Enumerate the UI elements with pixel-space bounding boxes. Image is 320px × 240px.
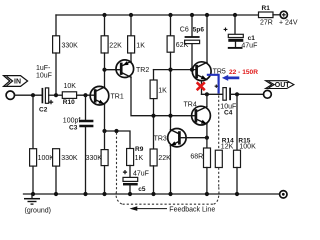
- node ground junction x=85.5: [83, 192, 87, 196]
- ground symbol bottom-left: [24, 194, 40, 204]
- node ground junction x=206.9: [205, 192, 209, 196]
- wire output node: [202, 93, 223, 95]
- resistor 62K: [167, 15, 188, 131]
- terminal +24V supply: [279, 11, 298, 26]
- svg-text:47uF: 47uF: [241, 42, 257, 49]
- resistor R9 1K: [127, 146, 144, 177]
- svg-text:C4: C4: [224, 110, 233, 117]
- node TR3-base/TR4-emitter/68R junction: [205, 136, 209, 140]
- svg-text:1K: 1K: [158, 88, 167, 95]
- wire TR2 base: [105, 69, 122, 71]
- svg-text:12K: 12K: [221, 144, 234, 151]
- svg-text:TR4: TR4: [184, 101, 197, 108]
- wire TR4 collector up: [206, 94, 208, 106]
- annotation blue arrow: [222, 75, 239, 81]
- node rail-1K junction: [129, 13, 133, 17]
- OUT banner: [266, 81, 294, 89]
- wire C4 to OUT: [230, 93, 263, 95]
- svg-text:10K: 10K: [64, 83, 77, 90]
- node TR4-collector/output junction: [205, 92, 209, 96]
- svg-text:c5: c5: [138, 186, 146, 193]
- svg-text:C2: C2: [39, 106, 48, 113]
- resistor 330K lower-middle: [86, 131, 109, 194]
- node ground junction x=237: [235, 192, 239, 196]
- node rail-C6 junction: [190, 13, 194, 17]
- svg-text:22 - 150R: 22 - 150R: [229, 69, 258, 76]
- svg-text:100pf: 100pf: [63, 118, 81, 125]
- capacitor c1 47uF: [224, 15, 258, 49]
- svg-text:100K: 100K: [38, 155, 55, 162]
- wire TR4 emitter down: [206, 124, 208, 138]
- svg-text:1K: 1K: [135, 155, 144, 162]
- node ground junction x=56: [54, 192, 58, 196]
- feedback dashed line: [123, 203, 214, 205]
- svg-text:330K: 330K: [61, 155, 78, 162]
- svg-text:10uF: 10uF: [36, 73, 52, 80]
- capacitor C2 1uF-10uF: [36, 65, 53, 113]
- wire blue emitter mod: [207, 75, 219, 94]
- capacitor C6 5p6: [180, 15, 205, 70]
- svg-text:47uF: 47uF: [133, 171, 149, 178]
- svg-text:Feedback Line: Feedback Line: [169, 206, 215, 213]
- wire TR1 emitter node to R9: [105, 131, 131, 149]
- svg-text:100K: 100K: [239, 144, 256, 151]
- resistor 330K upper-left: [53, 15, 79, 95]
- wire TR5 emitter to output node (cut): [201, 81, 203, 95]
- wire top +V rail: [56, 14, 259, 16]
- svg-text:C6: C6: [180, 27, 189, 34]
- svg-text:R10: R10: [63, 99, 75, 106]
- svg-text:+ 24V: + 24V: [279, 20, 298, 27]
- node ground junction x=104.5: [102, 192, 106, 196]
- transistor TR3: [154, 129, 186, 147]
- svg-text:1K: 1K: [136, 43, 145, 50]
- wire TR2 collector down: [131, 77, 196, 116]
- svg-text:22K: 22K: [109, 43, 122, 50]
- node ground junction x=170.5: [168, 192, 172, 196]
- node rail-c1 junction: [233, 13, 237, 17]
- svg-text:27R: 27R: [260, 19, 273, 26]
- svg-text:TR2: TR2: [136, 67, 149, 74]
- svg-text:330K: 330K: [62, 43, 79, 50]
- capacitor C3 100pf: [63, 95, 94, 194]
- feedback arrow: [130, 206, 168, 211]
- resistor R15 100K: [234, 94, 257, 194]
- wire R1 to +24V: [273, 14, 280, 16]
- svg-text:TR1: TR1: [111, 93, 124, 100]
- feedback hook left: [116, 192, 122, 205]
- svg-text:R9: R9: [135, 146, 144, 153]
- node input/100K junction: [31, 93, 35, 97]
- wire bias node to TR5 base: [154, 69, 197, 71]
- node ground junction x=130: [128, 192, 132, 196]
- svg-text:C3: C3: [69, 125, 78, 132]
- resistor 22K lower: [150, 149, 171, 194]
- node TR1-emitter/R9 junction: [102, 129, 106, 133]
- svg-text:22K: 22K: [158, 155, 171, 162]
- svg-text:5p6: 5p6: [193, 27, 205, 34]
- svg-text:c1: c1: [248, 35, 256, 42]
- wire C2 to R10: [49, 94, 63, 96]
- resistor 1K upper: [128, 15, 146, 62]
- feedback dashed tap left: [116, 133, 118, 192]
- terminal ground right: [280, 191, 287, 198]
- capacitor c5 47uF: [123, 170, 149, 194]
- wire TR3 base to TR4 emitter node: [179, 137, 207, 139]
- terminal output: [264, 90, 272, 98]
- node C6 bottom junction: [190, 68, 194, 72]
- terminal input: [6, 91, 14, 99]
- resistor R1 27R: [259, 5, 274, 26]
- node rail-62K junction: [168, 13, 172, 17]
- node feedback tap junction: [114, 129, 118, 133]
- svg-text:68R: 68R: [190, 154, 203, 161]
- svg-text:330K: 330K: [86, 155, 103, 162]
- svg-text:(ground): (ground): [25, 207, 51, 214]
- transistor TR1: [90, 86, 124, 105]
- wire TR1 emitter down: [104, 104, 106, 131]
- resistor R10 10K: [62, 83, 76, 106]
- svg-text:R1: R1: [262, 5, 271, 12]
- wire TR3 emitter to ground: [170, 146, 172, 194]
- svg-text:IN: IN: [14, 79, 21, 86]
- transistor TR2: [116, 60, 149, 78]
- node rail-22K junction: [102, 13, 106, 17]
- transistor TR5: [192, 62, 226, 81]
- wire input to C2: [15, 94, 43, 96]
- wire TR5 collector to rail: [206, 15, 208, 62]
- node rail-TR5 junction: [205, 13, 209, 17]
- node 22K/TR2-base junction: [102, 68, 106, 72]
- node 62K/TR3-collector/TR4-base junction: [168, 114, 172, 118]
- node R10/C3 junction: [83, 93, 87, 97]
- resistor 330K lower-left: [53, 149, 78, 194]
- svg-text:OUT: OUT: [275, 82, 291, 89]
- node R15/OUT junction: [235, 92, 239, 96]
- node ground junction x=153.5: [151, 192, 155, 196]
- svg-text:TR3: TR3: [154, 136, 167, 143]
- wire ground rail: [24, 193, 280, 195]
- node C2/330K junction: [54, 93, 58, 97]
- wire R10 to TR1 base: [77, 94, 96, 96]
- svg-text:1uF-: 1uF-: [36, 65, 51, 72]
- annotation red X cut mark: [197, 82, 205, 90]
- transistor TR4: [184, 101, 211, 125]
- resistor 22K upper: [101, 15, 122, 87]
- feedback hook right: [214, 187, 219, 205]
- IN banner: [4, 76, 28, 87]
- capacitor C4 10uF: [215, 85, 237, 117]
- resistor 100K: [30, 95, 55, 194]
- resistor 1K middle: [150, 70, 167, 149]
- node TR2-collector/1K/22K junction: [151, 114, 155, 118]
- node 62K/1K/C6/TR5-base junction: [168, 68, 172, 72]
- resistor R14 12K (feedback, dashed leads): [215, 96, 234, 187]
- node ground junction x=33: [31, 192, 35, 196]
- resistor 68R: [190, 138, 210, 194]
